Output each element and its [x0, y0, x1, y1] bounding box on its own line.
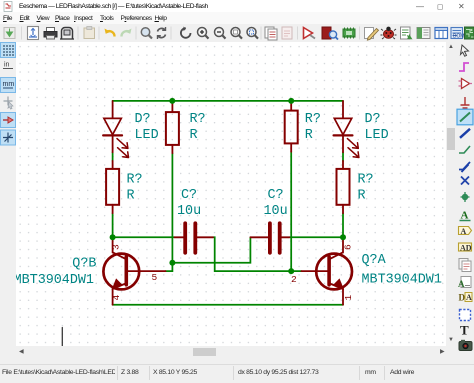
label C? 10u left	[177, 188, 201, 219]
icon zoom out	[215, 28, 226, 39]
tool wire to bus entry	[459, 146, 470, 153]
svg-text:in: in	[4, 62, 10, 69]
icon save (grayed)	[4, 28, 15, 39]
svg-text:5: 5	[152, 272, 158, 283]
wire col2 resistor down to Q?B base node	[171, 153, 173, 263]
pin 4 Q?B emitter	[111, 295, 122, 301]
node junction Q?A collector	[340, 234, 346, 240]
pin 6 Q?A collector	[342, 244, 353, 250]
wire top power rail	[113, 100, 343, 102]
title bar	[0, 0, 474, 12]
right toolbar	[456, 42, 474, 357]
transistor Q?B	[103, 238, 165, 305]
svg-text:LED: LED	[365, 128, 389, 143]
svg-text:R: R	[305, 128, 313, 143]
resistor R1 (col1)	[106, 161, 119, 213]
icon sym lib table	[451, 28, 464, 40]
tool place sheet pin	[458, 277, 471, 290]
resistor R3 (col3)	[285, 101, 298, 152]
svg-text:10u: 10u	[177, 204, 201, 219]
tool global label	[459, 227, 472, 236]
wire Q?B base node to C2 left jog	[172, 237, 250, 262]
capacitor C2	[250, 223, 289, 253]
cursor mark	[61, 328, 63, 347]
node junction Q?B collector	[110, 234, 116, 240]
svg-text:T: T	[460, 323, 469, 338]
tool place text	[460, 323, 469, 338]
capacitor C1	[175, 223, 214, 253]
pin 5 Q?B base	[152, 272, 158, 283]
wire col1 resistor to Q?B collector node	[112, 213, 114, 237]
icon netlist	[401, 27, 412, 39]
node junction top col2	[169, 98, 175, 104]
svg-text:1: 1	[343, 295, 354, 301]
icon hierarchy navigator	[265, 27, 277, 40]
toolbar separators	[22, 27, 360, 40]
svg-text:R: R	[127, 189, 135, 204]
icon BOM	[435, 28, 448, 39]
wire Q?A base node to base pin	[291, 270, 301, 272]
horizontal scrollbar	[16, 346, 446, 357]
svg-text:4: 4	[111, 295, 122, 301]
icon undo	[105, 29, 115, 37]
svg-text:R?: R?	[358, 173, 374, 188]
icon ERC bug	[381, 27, 397, 39]
svg-text:C?: C?	[181, 188, 197, 203]
svg-text:BOM: BOM	[453, 34, 464, 40]
button units inches	[3, 62, 13, 69]
tool place sheet (dashed)	[460, 310, 471, 321]
wire col4 resistor to Q?A collector node	[342, 213, 344, 237]
icon leave sheet (grayed)	[282, 27, 292, 39]
label Q?A MBT3904DW1	[362, 253, 442, 288]
label R? col2	[190, 112, 206, 143]
label Q?B MBT3904DW1	[14, 257, 97, 289]
svg-text:Q?A: Q?A	[362, 253, 387, 268]
svg-text:MBT3904DW1: MBT3904DW1	[16, 273, 94, 288]
icon redraw	[181, 27, 191, 38]
wire col3 resistor down to Q?A base node	[290, 152, 292, 271]
node junction top col3	[288, 98, 294, 104]
app icon	[3, 1, 14, 12]
wire Q?B base jog	[166, 263, 173, 271]
tool bus to bus entry	[459, 162, 470, 172]
svg-text:R?: R?	[305, 112, 321, 127]
icon redo (grayed)	[121, 29, 131, 37]
icon print	[44, 28, 57, 40]
resistor R4 (col4)	[337, 161, 350, 213]
tool place power port	[461, 97, 470, 111]
node junction Q?A base	[288, 268, 294, 274]
vertical scrollbar	[446, 42, 456, 346]
pin 2 Q?A base	[291, 274, 297, 285]
button cursor shape	[4, 97, 14, 110]
svg-text:A: A	[466, 293, 472, 302]
svg-text:R: R	[190, 128, 198, 143]
pin 3 Q?B collector	[111, 244, 122, 250]
svg-text:A: A	[458, 279, 465, 289]
left toolbar	[0, 42, 16, 357]
svg-text:Q?B: Q?B	[72, 257, 96, 272]
label R? col4	[358, 173, 374, 204]
wire C2 right to Q?A collector node	[289, 236, 343, 238]
icon annotate	[304, 28, 316, 39]
tool place bus	[460, 129, 470, 138]
tool highlight net	[459, 63, 469, 71]
icon footprint library	[343, 28, 355, 39]
svg-text:D: D	[459, 293, 466, 303]
svg-text:R?: R?	[127, 173, 143, 188]
tool junction	[461, 192, 470, 202]
icon find	[141, 28, 152, 39]
button free angle wires (selected)	[1, 130, 16, 145]
button grid visibility (selected)	[1, 43, 16, 58]
svg-text:R?: R?	[190, 112, 206, 127]
icon refresh view	[158, 27, 166, 39]
wire col1 LED-resistor gap	[112, 152, 114, 161]
icon run pcbnew	[465, 27, 474, 39]
icon plot	[60, 28, 74, 40]
tool cursor	[461, 45, 469, 56]
wire C1 right jog down to base row	[213, 237, 291, 271]
tool no connect flag	[461, 177, 469, 185]
icon symbol library editor	[322, 27, 338, 40]
svg-text:R: R	[358, 189, 366, 204]
svg-text:6: 6	[342, 244, 353, 250]
label C? 10u right	[264, 188, 288, 219]
svg-text:3: 3	[111, 244, 122, 250]
tool import sheet pin	[459, 259, 471, 272]
LED D2 right	[334, 101, 359, 158]
svg-text:MBT3904DW1: MBT3904DW1	[362, 273, 442, 288]
svg-text:LED: LED	[135, 128, 159, 143]
icon zoom page	[231, 28, 242, 39]
svg-text:D?: D?	[135, 112, 151, 127]
pin 1 Q?A emitter	[343, 295, 354, 301]
svg-text:A: A	[461, 227, 467, 236]
node junction Q?B base	[169, 260, 175, 266]
label D? LED left	[135, 112, 159, 143]
svg-text:D?: D?	[365, 112, 381, 127]
tool net label	[460, 210, 471, 222]
icon zoom in	[198, 28, 209, 39]
status bar	[0, 364, 474, 383]
transistor Q?A	[302, 237, 353, 304]
tool place symbol	[459, 79, 473, 89]
window buttons	[416, 3, 424, 11]
label R? col3	[305, 112, 321, 143]
resistor R2 (col2)	[166, 101, 179, 153]
wire node Q?B collector to C1 left	[113, 236, 175, 238]
main toolbar	[0, 24, 474, 43]
svg-text:mm: mm	[3, 81, 15, 88]
svg-text:AD: AD	[460, 243, 472, 252]
LED D1 left	[103, 101, 128, 158]
label D? LED right	[365, 112, 389, 143]
tool hierarchic sheet	[459, 293, 473, 303]
svg-text:10u: 10u	[264, 204, 288, 219]
tool place wire (selected)	[457, 109, 473, 125]
menu bar	[0, 12, 474, 24]
svg-text:C?: C?	[268, 188, 284, 203]
icon page settings	[28, 27, 39, 40]
icon assign footprints	[417, 28, 430, 39]
svg-text:2: 2	[291, 274, 297, 285]
wire col4 LED-resistor gap	[342, 152, 344, 161]
button units mm (selected)	[1, 78, 16, 93]
label R? col1	[127, 173, 143, 204]
icon zoom selection	[247, 28, 258, 39]
button capture image	[459, 340, 472, 351]
tool hierarchical label	[459, 243, 472, 252]
schematic canvas	[16, 42, 446, 346]
icon edit fields	[365, 28, 379, 41]
button show hidden pins (selected)	[1, 113, 16, 128]
icon paste (grayed)	[84, 27, 95, 39]
bottom strip	[0, 357, 474, 364]
svg-text:A: A	[461, 210, 469, 222]
wire bottom emitter rail	[113, 304, 343, 306]
